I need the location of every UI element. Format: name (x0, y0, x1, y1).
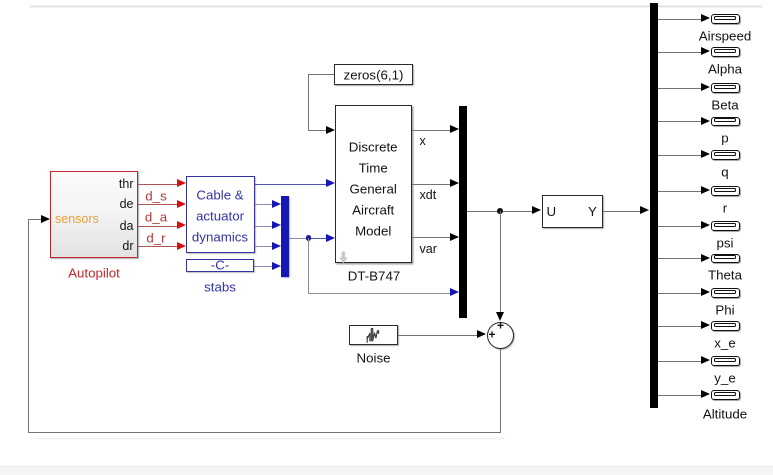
wire d_s (de) (138, 204, 177, 205)
port label thr (119, 178, 134, 191)
arrow into scope p (701, 117, 710, 125)
arrow xdt into mux1 (450, 179, 459, 187)
port label da (120, 220, 134, 233)
arrow into model in1 (326, 126, 335, 134)
wire Cable out1 to model in2 (255, 184, 326, 185)
block Autopilot (subsystem) (50, 171, 138, 258)
scope block Altitude (711, 390, 740, 400)
label x_e (714, 336, 735, 349)
mux (blue bar) (281, 196, 289, 278)
label Autopilot (68, 266, 120, 279)
arrow d_s into Cable (177, 200, 186, 208)
arrow into demux (640, 206, 649, 214)
label y_e (714, 371, 735, 384)
sum block (circle) (487, 322, 514, 349)
block zeros(6,1) constant (mirrored) (334, 64, 413, 85)
sum plus sign (left input) (488, 328, 495, 341)
arrow var into mux1 (450, 233, 459, 241)
port label de (120, 198, 134, 211)
scope block y_e (711, 356, 740, 366)
model reference arrow icon (339, 251, 348, 264)
label Theta (708, 268, 742, 281)
block -C- constant stabs (186, 259, 254, 273)
label Phi (715, 303, 734, 316)
demux (tall black bar) (650, 3, 658, 409)
noise waveform icon (366, 327, 381, 345)
signal label d_s (145, 189, 166, 202)
wire demux out psi (658, 226, 702, 227)
port label U (547, 205, 557, 218)
wire junction to model in3 (311, 238, 326, 239)
wire zeros to model in1 (308, 130, 326, 131)
arrow mux in4 (272, 262, 281, 270)
wire model out var (412, 237, 451, 238)
arrow into scope x_e (701, 321, 710, 329)
signal label d_a (145, 210, 167, 223)
port label sensors (55, 213, 99, 226)
arrow into mux1 in4 (blue) (450, 288, 459, 296)
scope block x_e (711, 321, 740, 331)
wire sum out down (500, 349, 501, 432)
arrow into scope psi (701, 221, 710, 229)
wire zeros out left (308, 74, 334, 75)
wire model out x (412, 130, 451, 131)
wire d_a (da) (138, 226, 177, 227)
wire demux out Alpha (658, 52, 702, 53)
arrow into scope Airspeed (701, 14, 710, 22)
arrow mux in3 (272, 242, 281, 250)
scope block Alpha (711, 47, 740, 57)
block Noise (band-limited white noise) (349, 325, 398, 345)
scope block Phi (711, 288, 740, 298)
label stabs (204, 280, 236, 293)
port label x (420, 135, 426, 148)
arrow into scope Theta (701, 254, 710, 262)
label psi (717, 236, 734, 249)
wire feedback into Autopilot (28, 219, 42, 220)
wire stabs to mux (254, 266, 272, 267)
node junction (blue) (306, 235, 311, 240)
scope block Airspeed (711, 14, 740, 24)
label Altitude (703, 407, 747, 420)
arrow mux in1 (272, 200, 281, 208)
scope block q (711, 150, 740, 160)
scope block r (711, 186, 740, 196)
scope block psi (711, 221, 740, 231)
wire demux out Theta (658, 258, 702, 259)
arrow into model in2 (326, 179, 335, 187)
wire mux1 out to junction2 (467, 211, 501, 212)
wire d_r (dr) (138, 246, 177, 247)
label Beta (711, 98, 738, 111)
wire demux out x_e (658, 326, 702, 327)
label DT-B747 (348, 269, 400, 282)
wire demux out Phi (658, 293, 702, 294)
wire demux out Altitude (658, 395, 702, 396)
arrow thr into Cable (177, 179, 186, 187)
scope block Beta (711, 83, 740, 93)
label Alpha (708, 62, 742, 75)
wire UY out to demux (603, 211, 640, 212)
wire demux out Beta (658, 88, 702, 89)
wire Noise to sum (398, 335, 477, 336)
port label dr (122, 240, 133, 253)
wire thr (Autopilot to Cable) (138, 184, 177, 185)
sum plus sign (top input) (497, 319, 504, 332)
wire demux out y_e (658, 361, 702, 362)
wire junction2 down to sum (500, 211, 501, 313)
canvas top edge line (30, 6, 762, 7)
wire demux out Airspeed (658, 19, 702, 20)
status bar (0, 466, 773, 475)
arrow into scope Altitude (701, 390, 710, 398)
label Airspeed (699, 29, 751, 42)
block U-Y selector (542, 195, 604, 228)
arrow into scope Beta (701, 83, 710, 91)
port label xdt (420, 189, 437, 202)
label q (721, 165, 728, 178)
wire feedback left vertical (28, 219, 29, 432)
feedback wire faint shadow (36, 438, 504, 440)
arrow into scope Phi (701, 288, 710, 296)
label r (723, 201, 727, 214)
wire feedback bottom (28, 432, 502, 433)
wire Cable out4 to mux (255, 246, 272, 247)
arrow x into mux1 (450, 125, 459, 133)
wire demux out r (658, 191, 702, 192)
port label Y (588, 205, 597, 218)
node junction2 (black) (497, 208, 503, 214)
wire junction branch to mux1 bottom (308, 293, 450, 294)
wire model out xdt (412, 184, 451, 185)
arrow into UY (532, 206, 541, 214)
wire mux out to junction (289, 238, 306, 239)
wire Cable out3 to mux (255, 226, 272, 227)
arrow d_a into Cable (177, 221, 186, 229)
mux1 (black bar) (459, 106, 467, 318)
wire zeros down (308, 74, 309, 130)
scope block p (711, 117, 740, 127)
wire demux out q (658, 155, 702, 156)
arrow into scope y_e (701, 356, 710, 364)
block Discrete Time General Aircraft Model (335, 105, 412, 264)
arrow into model in3 (326, 234, 335, 242)
arrow mux in2 (272, 221, 281, 229)
arrow into sum (477, 330, 486, 338)
wire junction2 to UY block (503, 211, 532, 212)
block Cable & actuator dynamics (186, 176, 255, 253)
scope block Theta (711, 254, 740, 264)
arrow down into sum (496, 312, 504, 321)
signal label d_r (146, 231, 165, 244)
input arrow into Autopilot (41, 215, 50, 223)
arrow into scope r (701, 186, 710, 194)
wire Cable out2 to mux (255, 204, 272, 205)
port label var (420, 243, 437, 256)
label p (721, 131, 728, 144)
arrow into scope Alpha (701, 47, 710, 55)
label Noise (357, 351, 391, 364)
wire demux out p (658, 121, 702, 122)
arrow d_r into Cable (177, 242, 186, 250)
arrow into scope q (701, 150, 710, 158)
wire junction down (308, 238, 309, 293)
